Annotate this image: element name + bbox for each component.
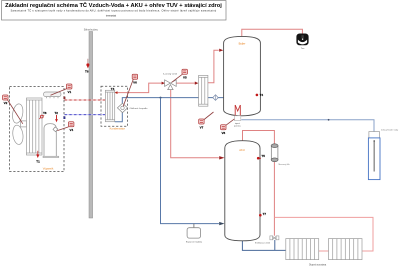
- boiler tank (TUV): [224, 36, 261, 115]
- svg-text:V4: V4: [69, 128, 73, 132]
- svg-text:termostat: termostat: [106, 15, 116, 18]
- sensor T2: [54, 111, 58, 122]
- title block frame: [2, 1, 227, 20]
- svg-text:Expanzní nádoba: Expanzní nádoba: [186, 241, 203, 243]
- svg-text:T5: T5: [261, 154, 265, 158]
- arrow into condenser: [115, 91, 118, 94]
- svg-text:Samostatné TČ s výstupem teplé: Samostatné TČ s výstupem teplé vody z ko…: [11, 9, 217, 12]
- check valve on boiler feed: [213, 95, 218, 101]
- svg-text:V6: V6: [133, 80, 137, 84]
- sensor T4: [256, 94, 259, 97]
- fan hub: [21, 121, 27, 127]
- arrow into 3-way valve: [162, 82, 165, 85]
- svg-text:patrona: patrona: [234, 125, 242, 128]
- heating element (topná patrona): [235, 105, 240, 116]
- pipe: 3-way valve to DHW heat exchanger: [176, 82, 195, 84]
- outdoor unit dashed enclosure (Výparník box): [10, 87, 65, 172]
- svg-text:T7: T7: [263, 212, 267, 216]
- pipe: AKU top loop through filter: [243, 131, 275, 145]
- svg-text:V7: V7: [200, 125, 204, 129]
- radiator 2: [329, 239, 363, 260]
- sensor T7: [259, 214, 262, 217]
- pressure sensor T8: [39, 111, 46, 119]
- svg-text:T2: T2: [54, 111, 58, 115]
- arrow into boiler: [219, 49, 223, 52]
- well (water source): [368, 132, 380, 180]
- valve tag V7: [199, 112, 214, 129]
- pipe: pump up and across to boiler: [122, 98, 223, 104]
- svg-text:T6: T6: [85, 69, 89, 73]
- brass filter: [271, 144, 278, 162]
- expansion valve on loop: [53, 127, 58, 132]
- suction loop pipe: [44, 124, 56, 156]
- svg-text:Základní regulační schéma TČ V: Základní regulační schéma TČ Vzduch-Voda…: [5, 2, 222, 9]
- svg-text:V8: V8: [221, 131, 225, 135]
- svg-text:T8: T8: [43, 111, 47, 115]
- AKU tank: [225, 141, 260, 241]
- 3-way valve: [165, 80, 177, 90]
- arrow into AKU: [219, 156, 224, 159]
- expansion vessel: [193, 224, 195, 228]
- valve tag V8: [221, 119, 235, 135]
- svg-text:Tuv: Tuv: [301, 48, 305, 50]
- svg-text:Mosazný filtr: Mosazný filtr: [279, 163, 291, 166]
- svg-text:Oběhové čerpadlo: Oběhové čerpadlo: [130, 107, 149, 110]
- evaporator coil block: [27, 98, 43, 155]
- svg-text:V5: V5: [183, 76, 187, 80]
- svg-text:V2: V2: [4, 101, 8, 105]
- radiator 1: [286, 239, 319, 260]
- condenser coil block: [105, 90, 114, 121]
- pipe: condenser bottom to pump: [115, 112, 123, 121]
- sensor T6: [85, 59, 89, 74]
- svg-text:T4: T4: [260, 93, 264, 97]
- svg-text:T1: T1: [36, 159, 40, 163]
- svg-text:Kondenzátor: Kondenzátor: [110, 127, 125, 131]
- pipe: AKU bottom to radiator return: [242, 241, 285, 251]
- refrigerant liquid dashed line: [65, 114, 106, 116]
- arrow into DHW heat exchanger: [195, 82, 199, 85]
- arrow into AKU return: [219, 222, 224, 225]
- pipe: cold water feed from well: [241, 120, 374, 132]
- pipe: boiler top to TUV tap: [242, 29, 303, 36]
- pipe: filter down to mixing valve: [273, 162, 275, 236]
- junction dot return branch: [160, 97, 162, 99]
- service valve mark liquid line: [63, 116, 65, 119]
- svg-text:Stěna budovy: Stěna budovy: [84, 28, 99, 31]
- pipe: bridge between radiators: [319, 250, 329, 252]
- circulation pump: [117, 103, 127, 112]
- svg-text:Bojler: Bojler: [239, 42, 246, 46]
- DHW heat exchanger block: [199, 75, 208, 106]
- valve tag V4: [57, 122, 74, 132]
- building wall bar: [89, 32, 93, 219]
- fan blade lower: [12, 124, 25, 145]
- svg-text:Výparník: Výparník: [43, 167, 54, 171]
- pipe: condenser outlet to 3-way valve: [116, 83, 165, 93]
- sensor T5: [257, 157, 260, 160]
- mixing valve: [270, 236, 279, 240]
- svg-text:V1: V1: [67, 90, 71, 94]
- heating element housing: [234, 116, 240, 121]
- service valve mark hot line: [63, 97, 65, 100]
- condenser dashed enclosure: [101, 86, 128, 126]
- sensor T1: [36, 151, 40, 164]
- compressor: [44, 92, 62, 98]
- pipe: heating supply branch to radiators: [274, 217, 373, 251]
- svg-text:Zdroj přívodní vody: Zdroj přívodní vody: [381, 130, 398, 132]
- pipe: return drop to AKU return: [161, 98, 219, 224]
- junction dot on cold feed: [328, 119, 330, 121]
- svg-text:3-cestný ventil: 3-cestný ventil: [163, 73, 177, 76]
- loop base plate: [43, 156, 59, 157]
- valve tag V2: [3, 95, 23, 124]
- refrigerant hot-gas dashed line (evaporator to condenser): [65, 99, 106, 101]
- fan blade upper: [11, 103, 24, 124]
- valve tag V1: [51, 84, 72, 95]
- valve tag V5: [172, 69, 188, 82]
- TUV tap icon: [296, 34, 308, 46]
- svg-text:Směšovací ventil: Směšovací ventil: [255, 241, 271, 244]
- svg-text:AKU: AKU: [239, 148, 245, 152]
- svg-text:T3: T3: [111, 87, 115, 91]
- pipe: 3-way valve bottom to AKU inlet: [171, 88, 219, 158]
- pipe: DHW heat exchanger to boiler top inlet: [208, 50, 219, 83]
- svg-text:Otopná soustava: Otopná soustava: [309, 263, 327, 266]
- valve tag V6: [123, 74, 137, 106]
- pipe: mixing valve riser: [274, 240, 276, 250]
